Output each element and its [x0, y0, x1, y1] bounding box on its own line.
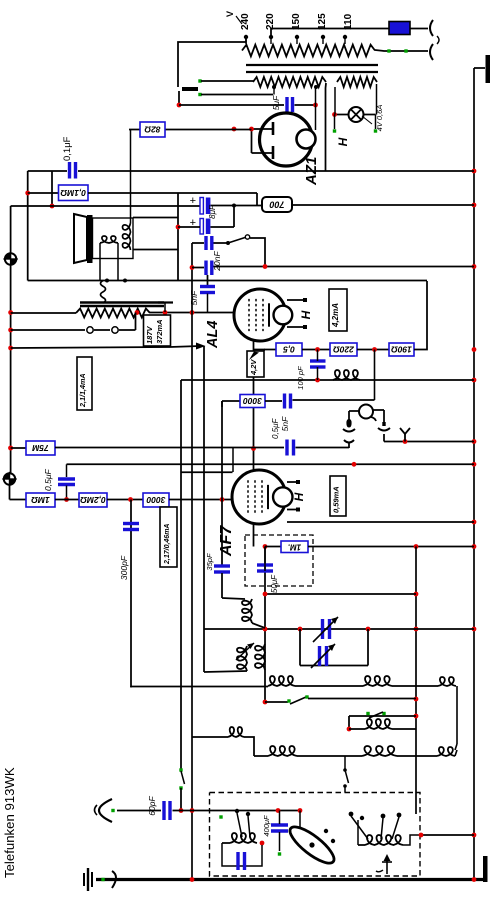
- svg-text:0,59mA: 0,59mA: [332, 486, 341, 513]
- svg-text:0,1MΩ: 0,1MΩ: [60, 188, 86, 198]
- svg-text:35pF: 35pF: [205, 553, 214, 571]
- svg-text:220Ω: 220Ω: [333, 345, 355, 355]
- svg-text:187V: 187V: [145, 325, 154, 344]
- svg-text:5μF: 5μF: [271, 95, 281, 110]
- svg-text:1MΩ: 1MΩ: [31, 495, 50, 505]
- svg-text:1M.: 1M.: [288, 542, 301, 551]
- svg-text:V: V: [225, 11, 235, 17]
- svg-text:4,2V: 4,2V: [249, 359, 258, 376]
- svg-text:5nF: 5nF: [189, 290, 199, 305]
- svg-text:0,5μF: 0,5μF: [43, 469, 53, 491]
- svg-text:AF7: AF7: [218, 525, 235, 557]
- svg-text:H: H: [299, 310, 313, 319]
- svg-text:H: H: [336, 137, 350, 146]
- svg-text:50μF: 50μF: [270, 574, 279, 593]
- svg-text:300pF: 300pF: [119, 555, 129, 580]
- svg-text:0,1μF: 0,1μF: [62, 136, 73, 161]
- svg-text:4,2mA: 4,2mA: [331, 303, 340, 328]
- svg-text:2,17/0,46mA: 2,17/0,46mA: [164, 524, 171, 565]
- svg-text:0,5: 0,5: [283, 345, 295, 355]
- svg-text:0,2MΩ: 0,2MΩ: [80, 495, 106, 505]
- svg-text:4V 0,6A: 4V 0,6A: [375, 105, 384, 132]
- svg-text:190Ω: 190Ω: [391, 345, 412, 355]
- svg-text:60pF: 60pF: [147, 796, 157, 816]
- svg-text:700: 700: [269, 200, 284, 210]
- svg-text:H: H: [292, 492, 306, 501]
- svg-text:100 pF: 100 pF: [296, 366, 305, 390]
- svg-text:8μF: 8μF: [208, 204, 217, 219]
- svg-text:AL4: AL4: [205, 321, 221, 349]
- svg-text:2,1/1,4mA: 2,1/1,4mA: [78, 373, 87, 408]
- svg-text:82Ω: 82Ω: [144, 125, 160, 135]
- svg-text:+: +: [190, 195, 196, 207]
- svg-text:110: 110: [343, 13, 354, 30]
- svg-text:150: 150: [291, 13, 302, 30]
- svg-text:372mA: 372mA: [155, 319, 164, 344]
- svg-text:240: 240: [240, 13, 251, 30]
- svg-text:0,5μF: 0,5μF: [271, 417, 280, 439]
- svg-text:220: 220: [265, 13, 276, 30]
- svg-text:3000: 3000: [146, 495, 165, 505]
- svg-text:75M: 75M: [31, 443, 48, 453]
- svg-text:5nF: 5nF: [280, 416, 290, 431]
- svg-text:400μF: 400μF: [262, 815, 271, 837]
- svg-text:3000: 3000: [243, 396, 262, 406]
- svg-text:125: 125: [317, 13, 328, 30]
- svg-text:Telefunken 913WK: Telefunken 913WK: [2, 767, 17, 878]
